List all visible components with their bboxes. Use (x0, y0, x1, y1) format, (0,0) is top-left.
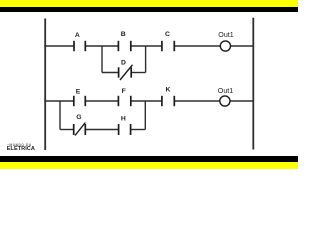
wire branch2 to G (60, 129, 74, 131)
contact E (74, 96, 86, 106)
top yellow banner (0, 0, 298, 7)
logo Mundo da Eletrica (7, 143, 32, 147)
wire rung1 rail to A (44, 45, 74, 47)
svg-text:G: G (76, 114, 81, 121)
contact H (119, 124, 131, 135)
svg-text:B: B (121, 31, 126, 38)
wire branch2 left vertical (59, 101, 61, 130)
wire rung2 F to K (131, 100, 162, 102)
wire D to branch1 end (131, 72, 145, 74)
contact F (118, 96, 130, 106)
svg-text:H: H (121, 115, 126, 122)
wire G to H (85, 129, 118, 131)
wire rung2 coil to rail (231, 100, 254, 102)
wire rung2 rail to E (44, 100, 74, 102)
svg-text:C: C (165, 31, 170, 38)
svg-text:Out1: Out1 (218, 31, 233, 39)
bottom black banner (0, 156, 298, 162)
wire rung1 A to B (85, 45, 118, 47)
wire rung1 C to coil (174, 45, 220, 47)
svg-text:K: K (166, 87, 171, 94)
contact A (74, 41, 85, 51)
wire rung1 coil to rail (231, 45, 254, 47)
bottom yellow banner (0, 161, 298, 169)
contact G (NC) (74, 123, 86, 136)
left power rail (44, 19, 46, 151)
coil Out1 rung1 (220, 41, 230, 51)
svg-text:D: D (121, 60, 126, 67)
contact B (118, 41, 130, 51)
coil Out1 rung2 (220, 96, 230, 106)
wire branch1 right vertical (145, 46, 147, 73)
svg-text:F: F (122, 88, 126, 95)
wire H to branch2 end (131, 129, 146, 131)
wire rung2 K to coil (174, 100, 220, 102)
svg-text:A: A (75, 32, 80, 39)
wire branch2 right vertical (144, 101, 146, 130)
svg-text:E: E (76, 88, 81, 95)
wire rung2 E to F (85, 100, 118, 102)
top black banner (0, 7, 298, 12)
wire branch1 left vertical (101, 46, 103, 73)
contact D (NC) (119, 65, 133, 80)
wire rung1 B to C (131, 45, 162, 47)
contact K (162, 96, 174, 106)
right power rail (252, 18, 254, 150)
svg-text:Out1: Out1 (218, 87, 233, 95)
wire branch1 to D (102, 72, 119, 74)
contact C (162, 41, 174, 51)
